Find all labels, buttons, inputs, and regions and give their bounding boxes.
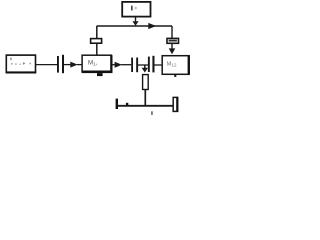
svg-text:M12: M12 bbox=[167, 62, 177, 68]
svg-text:M1,: M1, bbox=[88, 60, 98, 68]
